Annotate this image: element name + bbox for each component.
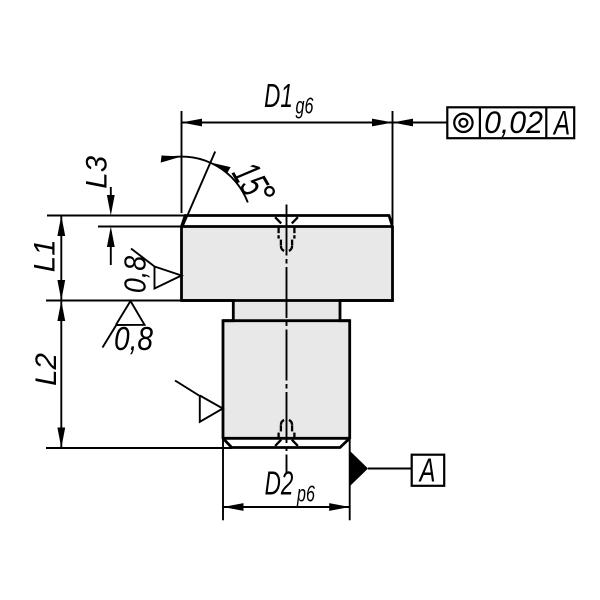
svg-text:L3: L3 — [81, 155, 114, 188]
svg-text:p6: p6 — [296, 482, 315, 507]
datum leader — [368, 468, 412, 470]
15deg chamfer extension slant — [182, 152, 216, 230]
FCF leader — [393, 122, 448, 124]
datum A triangle — [350, 451, 368, 486]
chamfer base edge — [182, 225, 393, 228]
extension lines left — [46, 216, 232, 449]
datum A box — [412, 455, 445, 486]
part outline — [182, 216, 393, 448]
hidden center hole top — [275, 217, 298, 251]
svg-text:A: A — [418, 453, 436, 490]
dimension D1 — [182, 111, 393, 224]
svg-text:0,8: 0,8 — [119, 256, 153, 293]
svg-text:g6: g6 — [296, 94, 315, 119]
roughness symbol 0,8 under flange — [103, 301, 145, 348]
roughness symbol 0,8 on flange side — [131, 249, 182, 289]
roughness symbol on cylinder side — [175, 381, 223, 422]
svg-text:D2: D2 — [265, 465, 294, 503]
svg-text:D1: D1 — [264, 78, 293, 116]
dimension L1 — [60, 216, 62, 301]
dimension L2 — [60, 301, 62, 449]
svg-text:0,8: 0,8 — [114, 321, 153, 358]
svg-text:A: A — [552, 104, 570, 142]
flange bottom edge — [182, 299, 393, 302]
cylinder top edge — [223, 319, 350, 322]
cylinder body fill — [223, 321, 350, 439]
svg-text:L1: L1 — [29, 239, 62, 272]
flange body fill — [182, 227, 393, 301]
15deg arrow left — [161, 156, 182, 163]
dimension L3 — [110, 187, 112, 265]
concentricity symbol — [454, 114, 472, 132]
feature control frame — [447, 107, 574, 138]
dimension D2 — [223, 439, 350, 520]
15deg arc — [169, 157, 248, 203]
centerline — [286, 205, 288, 474]
neck fill — [233, 301, 340, 321]
svg-text:0,02: 0,02 — [484, 104, 543, 140]
svg-text:L2: L2 — [30, 353, 63, 386]
15deg arrow right — [210, 162, 231, 173]
cylinder bottom chamfer edge — [223, 437, 350, 440]
hidden center hole bottom — [275, 420, 298, 446]
